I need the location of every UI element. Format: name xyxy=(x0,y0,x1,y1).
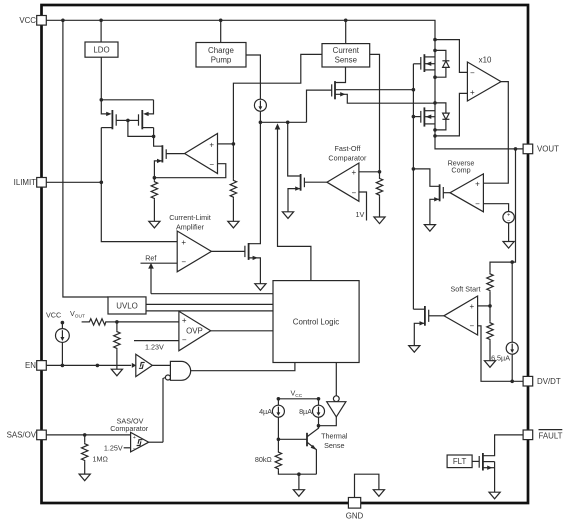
svg-text:Pump: Pump xyxy=(211,55,232,64)
svg-text:Comp: Comp xyxy=(451,166,470,175)
svg-text:+: + xyxy=(475,180,480,189)
svg-text:+: + xyxy=(351,168,356,177)
svg-text:Thermal: Thermal xyxy=(321,432,348,441)
svg-text:+: + xyxy=(469,302,474,311)
svg-text:1V: 1V xyxy=(356,210,365,219)
svg-text:Ref: Ref xyxy=(145,254,156,263)
svg-text:1.23V: 1.23V xyxy=(145,342,164,351)
svg-text:+: + xyxy=(133,435,136,441)
svg-text:SAS/OV: SAS/OV xyxy=(7,431,37,440)
svg-text:Control Logic: Control Logic xyxy=(293,317,340,326)
svg-text:ILIMIT: ILIMIT xyxy=(14,178,37,187)
svg-text:VCC: VCC xyxy=(46,310,61,319)
svg-text:−: − xyxy=(470,68,475,77)
svg-text:FLT: FLT xyxy=(453,457,467,466)
svg-text:Comparator: Comparator xyxy=(328,153,367,162)
svg-text:FAULT: FAULT xyxy=(539,432,563,441)
svg-text:−: − xyxy=(181,257,186,266)
svg-text:Fast-Off: Fast-Off xyxy=(334,144,360,153)
svg-text:80kΩ: 80kΩ xyxy=(255,455,273,464)
svg-text:+: + xyxy=(470,88,475,97)
svg-text:Current-Limit: Current-Limit xyxy=(169,213,211,222)
svg-text:LDO: LDO xyxy=(93,46,109,55)
svg-text:VOUT: VOUT xyxy=(537,145,559,154)
svg-text:1.25V: 1.25V xyxy=(104,444,123,453)
svg-text:1MΩ: 1MΩ xyxy=(93,455,109,464)
svg-text:6.5µA: 6.5µA xyxy=(491,353,510,362)
svg-text:−: − xyxy=(475,200,480,209)
svg-text:Soft Start: Soft Start xyxy=(451,284,481,293)
svg-text:8µA: 8µA xyxy=(299,407,312,416)
svg-text:GND: GND xyxy=(346,511,364,520)
svg-text:Amplifier: Amplifier xyxy=(176,222,205,231)
svg-text:VOUT: VOUT xyxy=(70,309,85,320)
svg-text:Charge: Charge xyxy=(208,46,234,55)
svg-text:Current: Current xyxy=(333,46,360,55)
svg-text:+: + xyxy=(182,316,187,325)
svg-text:−: − xyxy=(133,446,136,452)
svg-text:4µA: 4µA xyxy=(259,407,272,416)
svg-text:−: − xyxy=(469,322,474,331)
svg-text:+: + xyxy=(181,238,186,247)
svg-text:OVP: OVP xyxy=(186,327,203,336)
svg-text:VCC: VCC xyxy=(19,16,36,25)
svg-text:Sense: Sense xyxy=(324,441,344,450)
svg-text:+: + xyxy=(209,141,214,150)
svg-text:DV/DT: DV/DT xyxy=(537,377,561,386)
svg-text:Comparator: Comparator xyxy=(110,424,149,433)
svg-text:−: − xyxy=(351,188,356,197)
svg-text:−: − xyxy=(182,336,187,345)
svg-text:−: − xyxy=(209,160,214,169)
svg-text:EN: EN xyxy=(25,361,36,370)
svg-text:VCC: VCC xyxy=(291,389,303,400)
svg-text:UVLO: UVLO xyxy=(116,301,138,310)
svg-text:Sense: Sense xyxy=(335,56,358,65)
svg-text:x10: x10 xyxy=(479,56,492,65)
